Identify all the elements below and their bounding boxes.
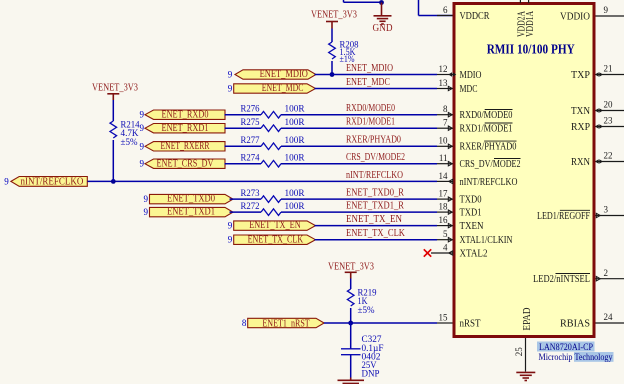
svg-text:TXD1: TXD1 <box>460 208 482 219</box>
svg-text:24: 24 <box>604 312 614 322</box>
svg-text:LED1/REGOFF: LED1/REGOFF <box>537 211 590 222</box>
svg-text:R275: R275 <box>241 117 260 127</box>
svg-text:100R: 100R <box>285 153 305 163</box>
wire ENET_RXERR to R277 <box>225 145 262 147</box>
svg-text:ENET_TXD0: ENET_TXD0 <box>167 194 215 205</box>
svg-text:TXEN: TXEN <box>460 221 484 232</box>
resistor R274 100R <box>241 153 305 168</box>
pin 7 RXD1/MODE1 (left) <box>437 118 513 135</box>
pin 20 TXN (right) <box>571 100 624 117</box>
ground GND (bar style) <box>373 3 393 35</box>
junction at GND stem <box>379 0 384 5</box>
pin 4 XTAL2 (left) <box>431 242 488 259</box>
pin 23 RXP (right) <box>571 116 624 133</box>
pin 14 nINT/REFCLKO (left) <box>437 171 518 188</box>
svg-text:RBIAS: RBIAS <box>560 318 590 329</box>
pin 22 RXN (right) <box>571 151 624 168</box>
svg-text:VENET_3V3: VENET_3V3 <box>311 10 357 21</box>
wire R277 to pin <box>281 145 437 147</box>
svg-text:nINT/REFCLKO: nINT/REFCLKO <box>460 177 518 188</box>
port ENET_RXD1 <box>140 123 226 134</box>
svg-text:ENET_TX_CLK: ENET_TX_CLK <box>346 228 405 239</box>
svg-text:5: 5 <box>443 229 448 239</box>
power VENET_3V3 (left, feeds R214) <box>92 83 138 100</box>
svg-text:ENET_MDIO: ENET_MDIO <box>346 63 393 74</box>
wire ENET_TX_CLK <box>315 239 438 241</box>
svg-text:ENET_MDIO: ENET_MDIO <box>260 69 308 80</box>
svg-text:100R: 100R <box>285 104 305 114</box>
port ENET_CRS_DV <box>140 158 226 169</box>
svg-text:VDDCR: VDDCR <box>460 11 490 22</box>
svg-text:ENET_TXD1: ENET_TXD1 <box>167 207 215 218</box>
svg-text:nINT/REFCLKO: nINT/REFCLKO <box>346 170 403 181</box>
wire ENET_RXD1 to R275 <box>225 127 262 129</box>
pin 9 VDDIO (right) <box>560 5 624 22</box>
svg-text:VENET_3V3: VENET_3V3 <box>92 83 138 94</box>
svg-text:4: 4 <box>443 242 448 252</box>
svg-text:9: 9 <box>228 70 233 80</box>
svg-text:9: 9 <box>604 5 609 15</box>
wire top net to GND <box>344 0 382 2</box>
svg-text:9: 9 <box>144 194 149 204</box>
part vendor Microchip Technology (highlighted) <box>539 352 614 363</box>
svg-text:RXD1/MODE1: RXD1/MODE1 <box>346 117 395 128</box>
wire nINT/REFCLKO <box>88 180 438 182</box>
wire R275 to pin <box>281 127 437 129</box>
svg-text:RXD1/MODE1: RXD1/MODE1 <box>460 124 513 135</box>
svg-text:DNP: DNP <box>362 368 380 378</box>
svg-text:10: 10 <box>439 136 449 146</box>
ground at EPAD <box>516 372 535 380</box>
svg-text:GND: GND <box>373 23 393 34</box>
svg-text:100R: 100R <box>285 188 305 198</box>
svg-text:23: 23 <box>604 116 614 126</box>
svg-text:8: 8 <box>242 318 247 328</box>
svg-text:9: 9 <box>140 123 145 133</box>
svg-text:TXN: TXN <box>571 106 590 117</box>
svg-text:8: 8 <box>443 104 448 114</box>
svg-text:nRST: nRST <box>460 318 481 329</box>
port ENET_RXERR <box>140 141 226 152</box>
pin 25 EPAD (bottom) <box>514 308 533 372</box>
wire ENET_RXD0 to R276 <box>225 114 262 116</box>
pin 16 TXEN (left) <box>437 215 484 232</box>
wire ENET_TXD1 to R272 <box>230 211 262 213</box>
wire R276 to pin <box>281 114 437 116</box>
wire R274 to pin <box>281 163 437 165</box>
svg-text:100R: 100R <box>285 117 305 127</box>
pin 3 LED1/REGOFF (right) <box>537 205 624 222</box>
wire VDDCR pin 6 net <box>419 0 453 16</box>
svg-text:100R: 100R <box>285 201 305 211</box>
wire ENET_MDIO <box>315 74 438 76</box>
svg-text:RXD0/MODE0: RXD0/MODE0 <box>460 110 513 121</box>
svg-text:TXD0: TXD0 <box>460 195 482 206</box>
pin 17 TXD0 (left) <box>437 189 482 206</box>
no-connect X on XTAL2 pin 4 <box>424 249 431 256</box>
wire VENET_3V3 to R208 <box>331 29 333 43</box>
capacitor C327 0.1uF 0402 25V DNP <box>341 323 384 378</box>
pin 8 RXD0/MODE0 (left) <box>437 104 513 121</box>
wire R219 to nRST net <box>350 308 352 323</box>
pin 13 MDC (left) <box>437 78 478 95</box>
svg-text:TXP: TXP <box>571 70 590 81</box>
resistor R277 100R <box>241 135 305 150</box>
port ENET_TX_CLK <box>228 234 316 245</box>
wire C327 to ground <box>350 355 352 378</box>
wire R208 to ENET_MDIO net <box>331 61 333 75</box>
svg-text:±5%: ±5% <box>358 305 376 315</box>
svg-text:RXP: RXP <box>571 122 590 133</box>
svg-text:16: 16 <box>439 215 449 225</box>
svg-text:ENET1_nRST: ENET1_nRST <box>262 318 309 329</box>
svg-text:nINT/REFCLKO: nINT/REFCLKO <box>21 177 84 188</box>
wire R214 to nINT/REFCLKO <box>112 140 114 181</box>
svg-text:R274: R274 <box>241 153 260 163</box>
pin VDD2A (top) <box>517 0 528 37</box>
svg-text:R276: R276 <box>241 104 260 114</box>
svg-text:±5%: ±5% <box>121 137 139 147</box>
junction nINT/REFCLKO with R214 <box>111 179 116 184</box>
svg-text:22: 22 <box>604 151 613 161</box>
port ENET_RXD0 <box>140 109 226 120</box>
power VENET_3V3 (bottom, feeds R219) <box>328 262 374 279</box>
svg-text:RMII 10/100 PHY: RMII 10/100 PHY <box>487 43 575 58</box>
svg-text:ENET_MDC: ENET_MDC <box>262 83 304 94</box>
svg-text:R273: R273 <box>241 188 260 198</box>
pin 15 nRST (left) <box>437 312 481 329</box>
wire ENET_MDC <box>315 88 438 90</box>
svg-text:ENET_TX_EN: ENET_TX_EN <box>249 220 301 231</box>
svg-text:18: 18 <box>439 202 449 212</box>
port ENET_TX_EN <box>228 220 316 231</box>
port ENET_MDC <box>228 83 316 94</box>
resistor R276 100R <box>241 104 305 118</box>
pin 10 RXER/PHYAD0 (left) <box>437 136 517 153</box>
svg-text:12: 12 <box>439 64 448 74</box>
wire R273 to pin <box>281 198 437 200</box>
svg-text:ENET_RXD0: ENET_RXD0 <box>162 109 209 120</box>
svg-text:ENET_RXERR: ENET_RXERR <box>161 141 210 152</box>
part designator LAN8720AI-CP (highlighted) <box>537 342 595 354</box>
junction nRST / R219 / C327 <box>348 321 353 326</box>
port ENET1_nRST <box>242 318 324 329</box>
svg-text:LAN8720AI-CP: LAN8720AI-CP <box>539 343 593 353</box>
svg-text:Microchip: Microchip <box>539 353 573 363</box>
svg-text:LED2/nINTSEL: LED2/nINTSEL <box>533 274 590 285</box>
svg-text:R272: R272 <box>241 201 260 211</box>
svg-text:14: 14 <box>439 171 449 181</box>
port ENET_TXD1 <box>144 207 234 218</box>
svg-text:R277: R277 <box>241 135 260 145</box>
svg-text:9: 9 <box>140 159 145 169</box>
pin 11 CRS_DV/MODE2 (left) <box>437 153 521 170</box>
svg-text:7: 7 <box>443 118 448 128</box>
resistor R214 4.7K pull-up on nINT/REFCLKO <box>110 120 140 148</box>
svg-text:XTAL1/CLKIN: XTAL1/CLKIN <box>460 235 513 246</box>
svg-text:6: 6 <box>443 5 448 15</box>
svg-text:9: 9 <box>228 235 233 245</box>
svg-text:ENET_TX_CLK: ENET_TX_CLK <box>248 234 304 245</box>
resistor R275 100R <box>241 117 305 132</box>
svg-text:9: 9 <box>228 84 233 94</box>
power VENET_3V3 (top, feeds R208) <box>311 10 357 29</box>
svg-text:ENET_RXD1: ENET_RXD1 <box>162 123 209 134</box>
wire VENET_3V3 to R214 <box>112 100 114 121</box>
ground below C327 <box>338 378 365 384</box>
svg-text:21: 21 <box>604 64 613 74</box>
svg-text:11: 11 <box>439 153 448 163</box>
svg-text:Technology: Technology <box>575 353 613 363</box>
svg-text:CRS_DV/MODE2: CRS_DV/MODE2 <box>346 152 405 163</box>
pin 12 MDIO (left) <box>437 64 482 81</box>
svg-text:ENET_MDC: ENET_MDC <box>346 77 390 88</box>
svg-text:VDDIO: VDDIO <box>560 11 590 22</box>
wire ENET_TXD0 to R273 <box>230 198 262 200</box>
svg-text:20: 20 <box>604 100 614 110</box>
svg-text:ENET_TXD1_R: ENET_TXD1_R <box>346 201 404 212</box>
svg-text:100R: 100R <box>285 135 305 145</box>
svg-text:9: 9 <box>144 207 149 217</box>
svg-text:3: 3 <box>604 205 609 215</box>
resistor R273 100R <box>241 188 305 203</box>
pin 5 XTAL1/CLKIN (left) <box>437 229 513 246</box>
svg-text:RXER/PHYAD0: RXER/PHYAD0 <box>460 142 517 153</box>
port nINT/REFCLKO <box>4 176 87 187</box>
wire ENET_CRS_DV to R274 <box>225 163 262 165</box>
svg-text:RXN: RXN <box>571 157 590 168</box>
wire R272 to pin <box>281 211 437 213</box>
pin 2 LED2/nINTSEL (right) <box>533 268 624 285</box>
svg-text:CRS_DV/MODE2: CRS_DV/MODE2 <box>460 159 521 170</box>
svg-text:9: 9 <box>140 141 145 151</box>
svg-text:15: 15 <box>439 312 449 322</box>
svg-text:VENET_3V3: VENET_3V3 <box>328 262 374 273</box>
wire ENET_TX_EN <box>315 225 438 227</box>
wire ENET1_nRST to pin 15 <box>324 322 437 324</box>
svg-text:13: 13 <box>439 78 449 88</box>
svg-text:9: 9 <box>228 221 233 231</box>
resistor R272 100R <box>241 201 305 216</box>
svg-text:XTAL2: XTAL2 <box>460 248 488 259</box>
IC U1 LAN8720AI-CP (RMII 10/100 PHY) body <box>454 4 594 337</box>
junction on ENET_MDIO <box>330 72 335 77</box>
svg-text:ENET_TX_EN: ENET_TX_EN <box>346 214 402 225</box>
pin 18 TXD1 (left) <box>437 202 482 219</box>
svg-text:9: 9 <box>140 110 145 120</box>
svg-text:2: 2 <box>604 268 609 278</box>
resistor R208 1.5K pull-up on MDIO <box>329 40 359 65</box>
svg-text:RXD0/MODE0: RXD0/MODE0 <box>346 103 395 114</box>
svg-text:ENET_TXD0_R: ENET_TXD0_R <box>346 188 404 199</box>
port ENET_TXD0 <box>144 194 234 205</box>
pin 6 VDDCR (left) <box>437 5 490 22</box>
svg-text:17: 17 <box>439 189 449 199</box>
port ENET_MDIO <box>228 69 316 80</box>
pin 24 RBIAS (right) <box>560 312 624 329</box>
svg-text:VDD1A: VDD1A <box>525 10 536 37</box>
svg-text:RXER/PHYAD0: RXER/PHYAD0 <box>346 135 401 146</box>
wire VENET_3V3 to R219 <box>350 279 352 290</box>
resistor R219 1K pull-up on nRST <box>347 288 377 316</box>
svg-text:9: 9 <box>4 176 9 186</box>
svg-text:ENET_CRS_DV: ENET_CRS_DV <box>157 158 215 169</box>
svg-text:25: 25 <box>514 347 524 357</box>
pin VDD1A (top) <box>525 0 536 37</box>
svg-text:EPAD: EPAD <box>522 308 533 331</box>
svg-text:MDIO: MDIO <box>460 70 482 81</box>
pin 21 TXP (right) <box>571 64 624 81</box>
svg-text:MDC: MDC <box>460 84 478 95</box>
